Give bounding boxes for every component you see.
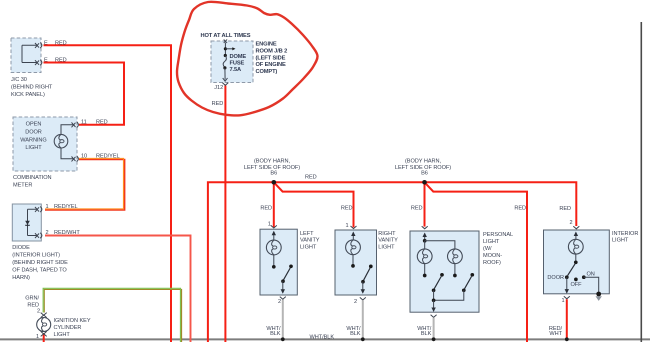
svg-text:(LEFT SIDE: (LEFT SIDE xyxy=(256,55,286,61)
svg-text:RED: RED xyxy=(411,206,423,212)
node with branch arrow xyxy=(224,43,226,56)
svg-text:LIGHT: LIGHT xyxy=(54,332,71,338)
bottom pin connector J12 xyxy=(222,83,228,86)
bulb lead and contact xyxy=(352,255,354,265)
svg-text:IGNITION KEY: IGNITION KEY xyxy=(54,318,91,324)
svg-text:J12: J12 xyxy=(214,85,223,91)
svg-text:1: 1 xyxy=(345,223,348,229)
svg-text:LIGHT: LIGHT xyxy=(378,244,395,250)
svg-text:LIGHT: LIGHT xyxy=(612,238,629,244)
DOOR contact xyxy=(565,275,569,279)
svg-text:RED: RED xyxy=(341,206,353,212)
svg-text:VANITY: VANITY xyxy=(378,238,398,244)
svg-text:2: 2 xyxy=(278,299,281,305)
svg-text:1: 1 xyxy=(268,222,271,228)
svg-text:J/C 30: J/C 30 xyxy=(11,77,27,83)
svg-text:ENGINE: ENGINE xyxy=(256,42,277,48)
diode box xyxy=(12,204,41,241)
svg-text:2: 2 xyxy=(570,220,573,226)
node and feed to both bulbs xyxy=(423,239,427,243)
wire WHT/BLK to ground bus xyxy=(362,300,364,338)
svg-text:COMBINATION: COMBINATION xyxy=(13,175,52,181)
bulb xyxy=(568,239,583,254)
svg-text:RED: RED xyxy=(559,206,571,212)
ignition key cylinder light bulb xyxy=(37,318,51,332)
pin 11 xyxy=(72,122,76,127)
wire RED/WHT to ground bus xyxy=(566,299,568,338)
svg-text:WHT/BLK: WHT/BLK xyxy=(310,335,335,341)
wire RED drop from B6 #2 to personal light xyxy=(424,182,426,226)
pin 1 connector (bottom) xyxy=(41,331,47,334)
svg-text:ROOM J/B 2: ROOM J/B 2 xyxy=(256,49,288,55)
svg-text:RIGHT: RIGHT xyxy=(378,231,396,237)
svg-text:RED: RED xyxy=(96,120,108,126)
pin 2 exit xyxy=(282,281,284,292)
svg-text:BLK: BLK xyxy=(350,331,361,337)
bulb 2 xyxy=(448,249,463,264)
svg-text:OF DASH, TAPED TO: OF DASH, TAPED TO xyxy=(12,268,67,274)
pin E (bottom) xyxy=(35,60,39,65)
svg-text:KICK PANEL): KICK PANEL) xyxy=(11,92,45,98)
svg-text:FUSE: FUSE xyxy=(230,61,245,67)
diagram right border xyxy=(640,22,642,342)
svg-text:HOT AT ALL TIMES: HOT AT ALL TIMES xyxy=(201,33,251,39)
svg-text:RED: RED xyxy=(212,101,224,107)
engine room J/B 2 dashed box xyxy=(211,41,253,83)
svg-text:11: 11 xyxy=(81,120,87,126)
svg-text:BLK: BLK xyxy=(421,331,432,337)
wire RED from J/C30 pin E (top) to bottom edge xyxy=(44,45,172,342)
svg-text:HARN): HARN) xyxy=(12,275,30,281)
svg-text:RED: RED xyxy=(55,40,67,46)
wire RED from fuse J12 to bottom edge xyxy=(224,86,226,342)
dome fuse 7.5A xyxy=(224,54,227,57)
open door warning light bulb xyxy=(54,134,68,148)
svg-text:E: E xyxy=(44,58,48,64)
svg-text:10: 10 xyxy=(81,153,87,159)
svg-text:(BODY HARN,: (BODY HARN, xyxy=(254,159,291,165)
svg-text:1: 1 xyxy=(46,204,49,210)
node B6 #2 xyxy=(422,180,427,185)
svg-text:B6: B6 xyxy=(421,171,428,177)
pin 2 connector (top) xyxy=(41,313,47,316)
pin connector at top xyxy=(422,226,428,229)
wire RED/WHT from diode pin 2 to bottom edge xyxy=(45,236,191,342)
svg-text:RED: RED xyxy=(260,206,272,212)
pin 1 xyxy=(35,207,39,212)
svg-text:CYLINDER: CYLINDER xyxy=(54,325,82,331)
pin 2 exit xyxy=(362,282,364,293)
common junction xyxy=(434,290,464,300)
svg-text:WARNING: WARNING xyxy=(20,137,46,143)
ON wire to case ground xyxy=(584,277,599,294)
switch xyxy=(289,264,293,268)
bulb xyxy=(346,240,361,255)
top pin connector xyxy=(224,40,227,43)
svg-text:RED: RED xyxy=(514,206,526,212)
wire RED main roof bus xyxy=(208,182,576,342)
pin 10 xyxy=(72,157,76,162)
svg-text:LIGHT: LIGHT xyxy=(25,145,42,151)
svg-text:MOON-: MOON- xyxy=(483,253,502,259)
personal light box xyxy=(410,231,479,312)
svg-text:DOME: DOME xyxy=(230,54,247,60)
svg-text:PERSONAL: PERSONAL xyxy=(483,232,513,238)
svg-text:DOOR: DOOR xyxy=(547,275,564,281)
bulb leads and contacts xyxy=(424,264,426,275)
wire WHT/BLK to ground bus xyxy=(282,300,284,339)
wire WHT/BLK ground bus (bottom) xyxy=(0,338,650,340)
svg-text:METER: METER xyxy=(13,183,32,189)
svg-text:(BEHIND RIGHT SIDE: (BEHIND RIGHT SIDE xyxy=(12,260,68,266)
interior light box xyxy=(544,230,610,294)
pin exit at bottom xyxy=(433,300,435,311)
svg-text:(INTERIOR LIGHT): (INTERIOR LIGHT) xyxy=(12,253,60,259)
svg-text:RED/WHT: RED/WHT xyxy=(54,230,80,236)
switch xyxy=(369,265,373,269)
wire RED from J/C30 pin E (bottom) to combination meter pin 11 xyxy=(44,63,125,125)
wire RED branch from B6 #1 to right vanity light xyxy=(274,182,354,227)
switch 1 xyxy=(440,273,444,277)
wire RED/YEL from combination meter pin 10 to diode pin 1 xyxy=(45,160,125,211)
annotation: hand-drawn red circle around dome fuse xyxy=(177,2,318,116)
bulb lead and contact xyxy=(273,255,275,266)
wire WHT/BLK to ground bus xyxy=(433,318,435,339)
pin E (top) xyxy=(35,43,39,48)
svg-text:1: 1 xyxy=(561,298,564,304)
svg-text:ROOF): ROOF) xyxy=(483,260,501,266)
diode symbol xyxy=(25,221,30,225)
svg-text:(W/: (W/ xyxy=(483,246,492,252)
svg-text:WHT: WHT xyxy=(549,331,562,337)
svg-text:RED/YEL: RED/YEL xyxy=(54,204,78,210)
junction block J/C 30 xyxy=(11,38,41,73)
OFF contact xyxy=(574,278,578,282)
svg-text:RED/YEL: RED/YEL xyxy=(96,153,120,159)
svg-text:B6: B6 xyxy=(270,171,277,177)
svg-text:OFF: OFF xyxy=(571,282,583,288)
bulb lead and contact xyxy=(575,254,577,261)
svg-text:RED: RED xyxy=(55,58,67,64)
svg-text:RED: RED xyxy=(305,175,317,181)
svg-text:E: E xyxy=(44,40,48,46)
svg-text:2: 2 xyxy=(37,309,40,315)
svg-text:2: 2 xyxy=(354,299,357,305)
svg-text:BLK: BLK xyxy=(270,331,281,337)
svg-text:LEFT SIDE OF ROOF): LEFT SIDE OF ROOF) xyxy=(244,165,300,171)
node B6 #1 xyxy=(272,180,277,185)
left vanity light box xyxy=(260,229,297,295)
bulb xyxy=(266,240,281,255)
svg-text:LEFT SIDE OF ROOF): LEFT SIDE OF ROOF) xyxy=(395,165,451,171)
svg-text:LIGHT: LIGHT xyxy=(483,239,500,245)
bulb 1 xyxy=(417,249,432,264)
switch blade to DOOR xyxy=(568,264,575,276)
combination meter box xyxy=(13,117,77,171)
wire GRN/RED from ignition key cylinder light pin 2 to bottom edge xyxy=(44,289,181,342)
svg-text:DIODE: DIODE xyxy=(12,245,30,251)
wire RED branch from B6 #2 to bottom edge xyxy=(425,182,528,342)
svg-text:2: 2 xyxy=(46,230,49,236)
svg-text:1: 1 xyxy=(36,334,39,340)
svg-text:OPEN: OPEN xyxy=(26,122,42,128)
svg-text:(BODY HARN,: (BODY HARN, xyxy=(405,159,442,165)
pin 1 exit at bottom xyxy=(566,277,568,292)
wire RED below ignition light to ground bus xyxy=(43,333,45,342)
pin 2 xyxy=(35,233,39,238)
svg-text:GRN/: GRN/ xyxy=(25,296,39,302)
svg-text:COMPT): COMPT) xyxy=(256,69,278,75)
svg-text:(BEHIND RIGHT: (BEHIND RIGHT xyxy=(11,85,53,91)
svg-text:VANITY: VANITY xyxy=(300,238,320,244)
svg-text:OF ENGINE: OF ENGINE xyxy=(256,62,287,68)
svg-text:INTERIOR: INTERIOR xyxy=(612,231,638,237)
ON contact xyxy=(582,275,586,279)
svg-text:LEFT: LEFT xyxy=(300,231,314,237)
right vanity light box xyxy=(335,230,377,295)
wire RED drop from B6 #1 to left vanity light xyxy=(273,182,275,227)
svg-text:DOOR: DOOR xyxy=(25,129,42,135)
svg-text:LIGHT: LIGHT xyxy=(300,244,317,250)
svg-text:7.5A: 7.5A xyxy=(230,67,242,73)
switch 2 xyxy=(470,273,474,277)
